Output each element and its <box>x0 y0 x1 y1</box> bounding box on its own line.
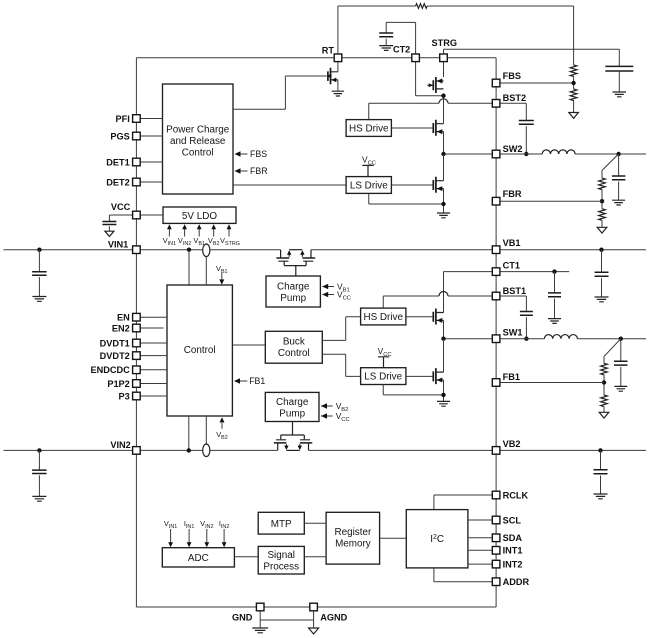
svg-text:INT2: INT2 <box>503 559 523 569</box>
svg-text:Memory: Memory <box>335 539 371 550</box>
svg-text:CT2: CT2 <box>393 45 410 55</box>
svg-text:VIN1: VIN1 <box>164 519 177 530</box>
svg-text:ADDR: ADDR <box>503 577 530 587</box>
svg-text:LS Drive: LS Drive <box>364 372 402 383</box>
svg-text:Process: Process <box>263 562 299 573</box>
svg-text:FBS: FBS <box>503 71 521 81</box>
svg-text:MTP: MTP <box>271 519 292 530</box>
svg-text:FBS: FBS <box>250 149 267 159</box>
svg-text:HS Drive: HS Drive <box>349 123 389 134</box>
svg-text:P1P2: P1P2 <box>107 379 129 389</box>
svg-text:PFI: PFI <box>116 114 130 124</box>
svg-text:VCC: VCC <box>362 155 376 167</box>
svg-text:VSTRG: VSTRG <box>220 236 240 247</box>
svg-text:5V LDO: 5V LDO <box>182 211 217 222</box>
svg-text:Pump: Pump <box>280 293 306 304</box>
svg-text:BST2: BST2 <box>503 93 526 103</box>
svg-text:CT1: CT1 <box>503 260 520 270</box>
svg-text:HS Drive: HS Drive <box>363 312 403 323</box>
svg-text:INT1: INT1 <box>503 546 523 556</box>
svg-text:P3: P3 <box>119 391 130 401</box>
svg-text:VIN2: VIN2 <box>178 236 191 247</box>
svg-text:Buck: Buck <box>283 337 305 348</box>
svg-text:Control: Control <box>278 348 310 359</box>
svg-text:LS Drive: LS Drive <box>350 180 388 191</box>
svg-text:DVDT1: DVDT1 <box>100 338 130 348</box>
svg-text:FBR: FBR <box>250 166 268 176</box>
svg-text:ADC: ADC <box>188 553 209 564</box>
svg-text:VB1: VB1 <box>216 264 228 275</box>
svg-text:VCC: VCC <box>378 346 392 358</box>
svg-text:FB1: FB1 <box>249 376 265 386</box>
svg-text:SW1: SW1 <box>503 328 523 338</box>
svg-text:Charge: Charge <box>277 282 310 293</box>
svg-text:Signal: Signal <box>267 550 294 561</box>
svg-text:VB1: VB1 <box>193 236 205 247</box>
svg-text:FB1: FB1 <box>503 372 520 382</box>
svg-text:VB1: VB1 <box>503 238 521 248</box>
svg-text:VIN2: VIN2 <box>200 519 213 530</box>
svg-text:FBR: FBR <box>503 189 522 199</box>
svg-text:Charge: Charge <box>276 397 309 408</box>
svg-text:VB2: VB2 <box>216 430 228 441</box>
svg-text:Control: Control <box>182 147 214 158</box>
svg-text:IIN2: IIN2 <box>219 519 229 530</box>
svg-text:VCC: VCC <box>111 202 131 212</box>
svg-text:AGND: AGND <box>320 612 347 622</box>
svg-text:BST1: BST1 <box>503 286 526 296</box>
svg-text:EN: EN <box>117 313 130 323</box>
svg-text:I2C: I2C <box>430 534 444 545</box>
svg-text:DVDT2: DVDT2 <box>100 351 130 361</box>
svg-text:ENDCDC: ENDCDC <box>90 365 130 375</box>
svg-text:VIN1: VIN1 <box>108 239 128 249</box>
svg-text:IIN1: IIN1 <box>184 519 194 530</box>
svg-text:DET2: DET2 <box>106 177 130 187</box>
svg-text:SW2: SW2 <box>503 144 523 154</box>
svg-text:PGS: PGS <box>110 131 129 141</box>
svg-text:STRG: STRG <box>432 38 458 48</box>
svg-text:GND: GND <box>232 612 253 622</box>
svg-text:EN2: EN2 <box>112 323 130 333</box>
svg-text:SCL: SCL <box>503 515 522 525</box>
svg-text:RCLK: RCLK <box>503 490 529 500</box>
svg-text:VIN1: VIN1 <box>163 236 176 247</box>
svg-text:VB2: VB2 <box>503 439 521 449</box>
svg-text:Control: Control <box>184 345 216 356</box>
svg-text:VB2: VB2 <box>208 236 220 247</box>
svg-text:DET1: DET1 <box>106 157 130 167</box>
svg-text:and Release: and Release <box>170 136 226 147</box>
svg-text:Pump: Pump <box>279 409 305 420</box>
svg-text:RT: RT <box>322 45 335 55</box>
svg-text:Power Charge: Power Charge <box>166 124 230 135</box>
svg-text:SDA: SDA <box>503 533 523 543</box>
svg-text:VIN2: VIN2 <box>110 440 130 450</box>
svg-text:Register: Register <box>335 527 372 538</box>
